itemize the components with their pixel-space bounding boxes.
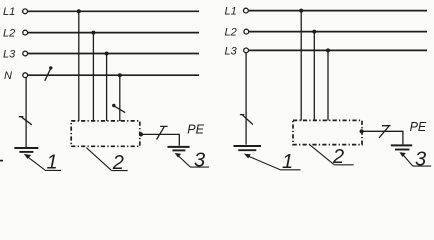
terminal circle L1 right: [244, 8, 249, 13]
terminal circle L3 left: [23, 51, 28, 56]
disconnect link on earthing conductor (tick and slash): [19, 117, 32, 125]
ground electrode 3 (left system): [168, 147, 190, 151]
wire L3 drop to box: [106, 54, 108, 122]
wire L3 right: [249, 49, 427, 51]
wire L2 drop to box (right): [313, 32, 315, 121]
svg-text:L2: L2: [225, 26, 237, 38]
wire L3 drop to box (right): [327, 50, 329, 120]
terminal circle L1 left: [23, 9, 28, 14]
junction on L2 left: [91, 31, 95, 35]
junction on box right edge (PE takeoff, right system): [360, 129, 364, 133]
ground electrode 3 (right system): [391, 145, 412, 149]
leader and label 1 (right system): [244, 151, 301, 173]
wire L2 drop to box: [92, 33, 94, 121]
junction on L1 right: [299, 9, 303, 13]
node L3 (left system): [3, 49, 16, 61]
wire N drop to box: [119, 75, 121, 121]
wire earthing conductor from L3 terminal down (right system): [245, 53, 247, 145]
junction on L3 left: [105, 52, 109, 56]
node L1 (right system): [225, 5, 237, 17]
node N (left system): [4, 70, 12, 82]
terminal circle L2 right: [244, 29, 249, 34]
svg-text:2: 2: [112, 152, 124, 174]
node L2 (right system): [225, 26, 237, 38]
svg-text:3: 3: [194, 149, 205, 171]
svg-text:PE: PE: [187, 122, 204, 136]
disconnect link on PE wire (tick and slash, left system): [157, 126, 168, 139]
svg-text:L2: L2: [3, 28, 15, 40]
leader and label 3 (right system): [399, 149, 431, 171]
svg-text:PE: PE: [410, 120, 427, 134]
box 2: distribution equipment (right system, dash-dot outline): [293, 120, 362, 144]
svg-text:L3: L3: [3, 49, 16, 61]
wire PE from box to ground 3 (right system): [362, 131, 403, 144]
label PE (left system): [187, 122, 204, 136]
leader and label 1 (left system): [24, 152, 61, 174]
svg-text:1: 1: [282, 151, 293, 173]
junction on L2 right: [312, 30, 316, 34]
leader and label 3 (left system): [175, 149, 209, 171]
terminal circle N left: [23, 73, 28, 78]
svg-text:L1: L1: [225, 5, 237, 17]
terminal circle L2 left: [23, 30, 28, 35]
leader and label 2 (left system): [86, 148, 127, 174]
wire N left: [28, 74, 199, 76]
ground electrode 1 (left system): [14, 148, 38, 152]
wire L1 right: [249, 10, 428, 12]
wire L3 left: [28, 53, 199, 55]
svg-text:3: 3: [415, 149, 426, 171]
wire L1 drop to box: [78, 11, 80, 121]
box 2: distribution equipment (left system, dash-dot outline): [71, 121, 140, 146]
node L1 (left system): [3, 6, 15, 18]
disconnect link on PE wire (tick and slash, right system): [379, 126, 391, 138]
junction on L3 right: [326, 48, 330, 52]
removable link on N wire (slash with dot): [45, 66, 53, 81]
svg-text:L1: L1: [3, 6, 15, 18]
svg-text:1: 1: [47, 152, 58, 174]
terminal circle L3 right: [244, 48, 249, 53]
wire PE from box to ground 3 (left system): [141, 134, 179, 145]
removable link on N drop (slash with dot): [112, 104, 125, 113]
wire earthing conductor from N terminal down: [25, 78, 27, 148]
svg-text:L3: L3: [225, 45, 238, 57]
junction on N left: [118, 73, 122, 77]
node L3 (right system): [225, 45, 238, 57]
speck at image bottom left edge: [0, 160, 3, 162]
junction on box right edge (PE takeoff, left system): [139, 132, 143, 136]
leader and label 2 (right system): [310, 145, 354, 168]
wire L2 right: [249, 31, 427, 33]
node L2 (left system): [3, 28, 15, 40]
label PE (right system): [410, 120, 427, 134]
svg-text:2: 2: [332, 146, 344, 168]
wire L1 drop to box (right): [300, 11, 302, 121]
wire L2 left: [28, 32, 199, 34]
junction on L1 left: [77, 9, 81, 13]
svg-text:N: N: [4, 70, 12, 82]
ground electrode 1 (right system): [234, 146, 262, 150]
disconnect link on earthing conductor (tick and slash, right system): [240, 115, 253, 125]
wire L1 left: [28, 10, 199, 12]
